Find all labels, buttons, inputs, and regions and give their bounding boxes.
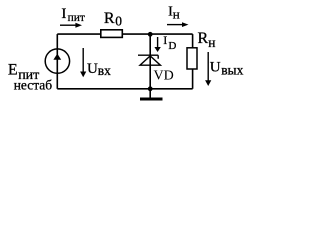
svg-text:R: R — [104, 10, 115, 27]
svg-text:вых: вых — [221, 62, 243, 77]
svg-text:н: н — [173, 6, 180, 21]
svg-text:0: 0 — [115, 13, 122, 28]
svg-text:н: н — [208, 35, 215, 50]
svg-text:U: U — [87, 61, 98, 77]
svg-text:I: I — [163, 33, 167, 47]
svg-text:U: U — [210, 60, 221, 76]
svg-text:вх: вх — [98, 63, 111, 78]
svg-text:VD: VD — [154, 68, 174, 83]
svg-text:нестаб: нестаб — [14, 77, 53, 92]
svg-text:D: D — [168, 40, 176, 52]
svg-text:I: I — [61, 6, 66, 22]
svg-text:E: E — [8, 62, 18, 79]
svg-text:пит: пит — [68, 12, 85, 24]
svg-text:R: R — [198, 30, 209, 47]
